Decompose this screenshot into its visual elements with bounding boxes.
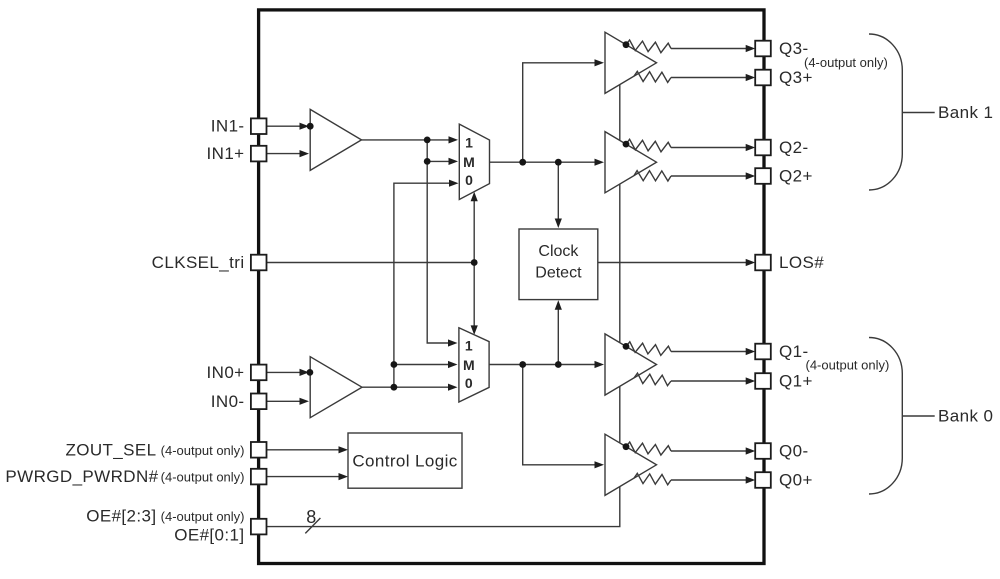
wire PWRGD_PWRDN# to control logic [267, 473, 348, 480]
junction dot driver A0 [623, 443, 630, 450]
wire IN0- to buffer [267, 398, 309, 405]
label ZOUT_SEL [65, 440, 244, 459]
output driver A3 [605, 32, 657, 93]
label 4-output only bank0 [806, 358, 890, 373]
svg-text:Q0+: Q0+ [779, 471, 813, 490]
pin IN0+ [251, 365, 267, 381]
wire Q3- output [671, 45, 755, 52]
label LOS# [779, 253, 824, 272]
wire IN1+ to buffer [267, 150, 309, 157]
pin Q1+ [755, 373, 771, 389]
wire Q0+ output [671, 476, 755, 483]
label Q2+ [779, 167, 813, 186]
svg-text:PWRGD_PWRDN#: PWRGD_PWRDN# [5, 467, 158, 486]
wire Q1+ output [671, 377, 755, 384]
junction dot mux M1 out b [555, 159, 562, 166]
bus width slash 8 [305, 518, 320, 533]
label 8 [306, 507, 316, 527]
pin Q3- [755, 41, 771, 57]
svg-text:(4-output only): (4-output only) [161, 443, 245, 458]
label clock detect [535, 243, 582, 281]
svg-text:IN1+: IN1+ [207, 144, 245, 163]
resistor R0a [626, 442, 671, 455]
svg-text:Q0-: Q0- [779, 442, 809, 461]
label mux M0 1 [465, 338, 473, 354]
label Q0+ [779, 471, 813, 490]
pin Q3+ [755, 70, 771, 86]
label Bank 0 [938, 407, 993, 426]
wire IN1 branch down to mux M0 input 1 [427, 140, 457, 347]
pin IN1- [251, 118, 267, 134]
wire mux M0 output to driver A1 [489, 361, 604, 368]
svg-text:Q2-: Q2- [779, 138, 809, 157]
junction dot driver A2 [623, 141, 630, 148]
wire IN1- to buffer [267, 123, 309, 130]
svg-text:M: M [463, 154, 475, 170]
svg-text:Clock: Clock [538, 243, 579, 260]
resistor R3a [626, 40, 671, 53]
wire to Clock Detect top [555, 162, 562, 228]
pin Q2- [755, 140, 771, 156]
label CLKSEL_tri [152, 253, 245, 272]
pin OE# [251, 519, 267, 535]
junction dot IN1 line a [424, 137, 431, 144]
label mux M1 0 [465, 172, 473, 188]
label PWRGD_PWRDN# [5, 467, 244, 486]
resistor R0b [634, 473, 671, 485]
svg-text:IN0-: IN0- [211, 392, 245, 411]
svg-text:CLKSEL_tri: CLKSEL_tri [152, 253, 245, 272]
wire IN0 branch up to mux M1 input 0 [394, 180, 459, 388]
pin Q2+ [755, 168, 771, 184]
label IN0- [211, 392, 245, 411]
label OE#[0:1] [174, 526, 244, 545]
label mux M0 M [463, 357, 475, 373]
mux M0 [459, 328, 489, 402]
label Q3- [779, 39, 809, 58]
svg-text:Bank 1: Bank 1 [938, 103, 993, 122]
input buffer U1 [310, 109, 361, 170]
svg-text:OE#[2:3]: OE#[2:3] [86, 507, 156, 526]
svg-text:8: 8 [306, 507, 316, 527]
pin Q0+ [755, 472, 771, 488]
pin Q1- [755, 344, 771, 360]
svg-text:Bank 0: Bank 0 [938, 407, 993, 426]
wire branch up to driver A3 [523, 59, 604, 162]
wire bank 1 tie [902, 112, 934, 114]
label mux M1 1 [465, 134, 473, 150]
svg-text:ZOUT_SEL: ZOUT_SEL [65, 440, 156, 459]
svg-text:LOS#: LOS# [779, 253, 824, 272]
wire Q0- output [671, 447, 755, 454]
wire IN0+ to buffer [267, 369, 309, 376]
wire tap to mux M1 middle input [427, 158, 458, 165]
svg-text:OE#[0:1]: OE#[0:1] [174, 526, 244, 545]
clock detect box [519, 229, 598, 300]
label 4-output only bank1 [804, 55, 888, 70]
junction dot IN1 [307, 123, 314, 130]
label IN1- [211, 117, 245, 136]
input buffer U0 [310, 357, 362, 418]
junction dot driver A3 [623, 41, 630, 48]
svg-text:Q1+: Q1+ [779, 372, 813, 391]
wire U1 output to mux M1 input 1 [362, 136, 459, 143]
junction dot driver A1 [623, 343, 630, 350]
svg-text:1: 1 [465, 338, 473, 354]
svg-text:(4-output only): (4-output only) [161, 509, 245, 524]
wire CLKSEL_tri [267, 262, 475, 264]
label mux M1 M [463, 154, 475, 170]
wire select to mux M0 [471, 263, 478, 335]
wire tap to mux M0 middle input [394, 361, 458, 368]
label OE#[2:3] [86, 507, 244, 526]
resistor R2a [626, 139, 671, 152]
wire ZOUT_SEL to control logic [267, 446, 348, 453]
pin LOS# [755, 255, 771, 271]
wire Q2+ output [671, 172, 755, 179]
svg-text:IN0+: IN0+ [207, 363, 245, 382]
svg-text:(4-output only): (4-output only) [161, 470, 245, 485]
wire U0 output to mux M0 input 0 [362, 384, 458, 391]
label Q0- [779, 442, 809, 461]
pin IN1+ [251, 146, 267, 162]
resistor R3b [634, 71, 671, 82]
resistor R1a [626, 342, 671, 356]
svg-text:Detect: Detect [535, 264, 582, 281]
pin CLKSEL_tri [251, 255, 267, 271]
wire bank 0 tie [902, 415, 934, 417]
mux M1 [459, 124, 489, 199]
resistor R1b [634, 373, 671, 386]
svg-text:Q3+: Q3+ [779, 68, 813, 87]
wire Q1- output [671, 348, 755, 355]
resistor R2b [634, 171, 671, 181]
label control logic [352, 451, 457, 470]
svg-text:0: 0 [465, 375, 473, 391]
junction dot IN0 line a [391, 384, 398, 391]
junction dot mux M0 out a [519, 361, 526, 368]
wire Q3+ output [671, 74, 755, 81]
pin PWRGD_PWRDN# [251, 469, 267, 485]
pin Q0- [755, 443, 771, 459]
svg-text:IN1-: IN1- [211, 117, 245, 136]
control logic box [348, 433, 462, 488]
svg-text:1: 1 [465, 134, 473, 150]
output driver A2 [605, 132, 657, 193]
svg-text:0: 0 [465, 172, 473, 188]
svg-text:(4-output only): (4-output only) [806, 358, 890, 373]
junction dot mux M1 out a [519, 159, 526, 166]
label Bank 1 [938, 103, 993, 122]
junction dot CLKSEL [471, 259, 478, 266]
wire branch down to driver A0 [523, 365, 604, 469]
chip boundary [259, 10, 764, 564]
junction dot IN1 line b [424, 158, 431, 165]
label IN0+ [207, 363, 245, 382]
label Q3+ [779, 68, 813, 87]
wire OE# bus [267, 85, 620, 527]
svg-text:Q1-: Q1- [779, 342, 809, 361]
output driver A0 [605, 434, 657, 495]
label mux M0 0 [465, 375, 473, 391]
label Q2- [779, 138, 809, 157]
wire mux M1 output to driver A2 [490, 159, 605, 166]
wire to Clock Detect bottom [555, 300, 562, 364]
label Q1- [779, 342, 809, 361]
svg-text:M: M [463, 357, 475, 373]
pin ZOUT_SEL [251, 442, 267, 458]
wire LOS# [598, 259, 755, 266]
wire Q2- output [671, 144, 755, 151]
svg-text:(4-output only): (4-output only) [804, 55, 888, 70]
bank 0 brace [869, 338, 902, 495]
svg-text:Q2+: Q2+ [779, 167, 813, 186]
bank 1 brace [869, 34, 902, 190]
wire select to mux M1 [471, 192, 478, 263]
junction dot IN0 [307, 369, 314, 376]
label Q1+ [779, 372, 813, 391]
junction dot IN0 line b [391, 361, 398, 368]
label IN1+ [207, 144, 245, 163]
pin IN0- [251, 394, 267, 410]
junction dot mux M0 out b [555, 361, 562, 368]
output driver A1 [605, 334, 657, 395]
svg-text:Control Logic: Control Logic [352, 451, 457, 470]
